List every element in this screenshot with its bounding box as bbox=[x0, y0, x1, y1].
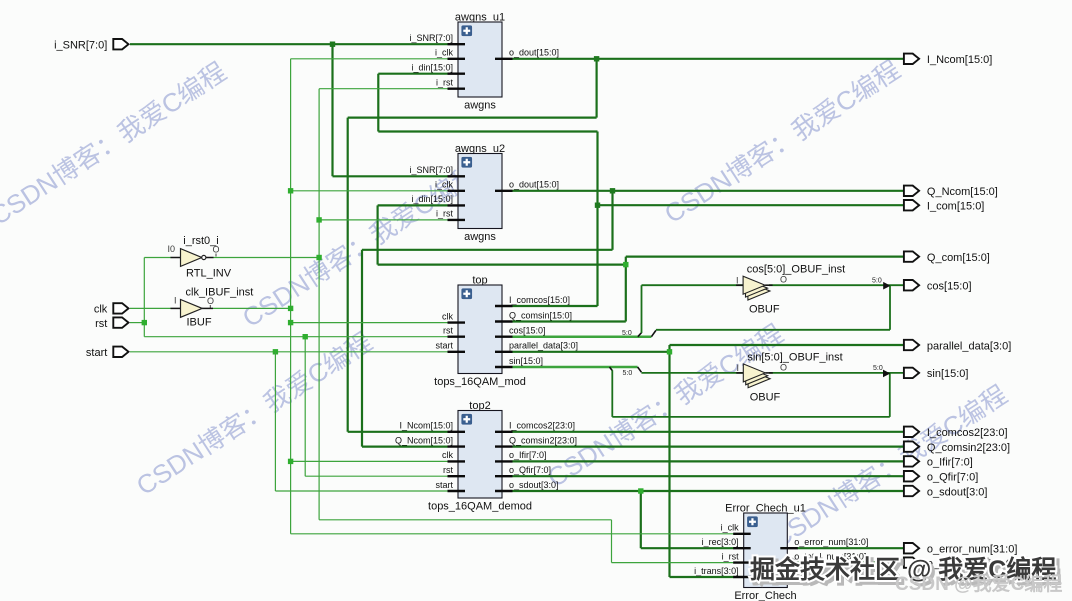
wire Q_comsin vertical bbox=[625, 257, 627, 322]
svg-text:OBUF: OBUF bbox=[750, 392, 781, 404]
svg-text:5:0: 5:0 bbox=[873, 365, 883, 372]
wire I_Ncom feedback left bbox=[348, 116, 597, 118]
svg-text:rst: rst bbox=[95, 318, 107, 330]
wire rst0 lower jog horizontal bbox=[319, 519, 611, 521]
inverter RTL_INV bbox=[168, 235, 232, 280]
port o_total_num[31:0] bbox=[904, 557, 1015, 570]
svg-text:i_rst: i_rst bbox=[436, 209, 454, 219]
wire I_Ncom branch down bbox=[595, 59, 597, 118]
wire i_trans into Error_Chech bbox=[670, 576, 734, 578]
wire i_rec into Error_Chech bbox=[641, 547, 734, 549]
svg-text:Q_com[15:0]: Q_com[15:0] bbox=[927, 252, 990, 264]
node Q_Ncom junction bbox=[610, 188, 615, 193]
svg-text:CSDN @我爱C编程: CSDN @我爱C编程 bbox=[895, 572, 1062, 595]
node I_com junction bbox=[595, 203, 600, 208]
svg-text:5:0: 5:0 bbox=[872, 277, 882, 284]
wire rst into top bbox=[144, 336, 447, 338]
ripper sin high bits tap bbox=[610, 367, 613, 371]
node clk top junction bbox=[288, 320, 293, 325]
node I_Ncom junction bbox=[594, 56, 599, 61]
wire i_clk into Error_Chech bbox=[291, 533, 734, 535]
wire Q_comsin2 to port bbox=[513, 446, 904, 448]
svg-text:IBUF: IBUF bbox=[187, 317, 212, 329]
port Q_com[15:0] bbox=[904, 251, 990, 264]
port i_SNR[7:0] bbox=[54, 39, 128, 52]
wire o_sdout branch down bbox=[640, 491, 642, 548]
wire Q_com to port bbox=[626, 256, 904, 258]
wire rst into top2 bbox=[305, 475, 447, 477]
svg-text:Q_Ncom[15:0]: Q_Ncom[15:0] bbox=[395, 435, 453, 445]
svg-text:O: O bbox=[213, 245, 220, 255]
svg-text:tops_16QAM_demod: tops_16QAM_demod bbox=[428, 501, 532, 513]
module awgns_u2 (awgns) bbox=[409, 143, 559, 243]
arrow cos merge bbox=[883, 282, 890, 290]
wire awgns_u2 i_din bbox=[378, 204, 448, 206]
svg-text:rst: rst bbox=[443, 326, 453, 336]
svg-text:start: start bbox=[435, 480, 453, 490]
svg-text:o_Qfir[7:0]: o_Qfir[7:0] bbox=[927, 472, 978, 484]
svg-text:o_dout[15:0]: o_dout[15:0] bbox=[509, 48, 559, 58]
svg-text:o_Ifir[7:0]: o_Ifir[7:0] bbox=[927, 457, 973, 469]
svg-text:parallel_data[3:0]: parallel_data[3:0] bbox=[927, 340, 1011, 352]
wire rst0 net vertical bbox=[318, 89, 320, 520]
svg-text:I_comcos2[23:0]: I_comcos2[23:0] bbox=[927, 427, 1008, 439]
wire clk into top2 bbox=[291, 460, 448, 462]
svg-text:cos[15:0]: cos[15:0] bbox=[509, 326, 546, 336]
svg-text:start: start bbox=[86, 347, 107, 359]
port Q_Ncom[15:0] bbox=[904, 186, 998, 199]
wire sin high bits horizontal bbox=[612, 416, 890, 418]
svg-text:o_error_num[31:0]: o_error_num[31:0] bbox=[794, 537, 868, 547]
wire Q_Ncom feedback left bbox=[362, 249, 613, 251]
svg-text:5:0: 5:0 bbox=[623, 370, 633, 377]
svg-text:cos[15:0]: cos[15:0] bbox=[927, 281, 972, 293]
wire start vertical bbox=[274, 352, 276, 491]
svg-text:I_Ncom[15:0]: I_Ncom[15:0] bbox=[927, 54, 992, 66]
ripper cos OBUF tap bbox=[638, 333, 642, 337]
node clk u2 junction bbox=[288, 188, 293, 193]
wire parallel_data to port bbox=[670, 344, 904, 346]
arrow sin merge bbox=[883, 370, 890, 378]
wire i_din u2 horizontal bbox=[378, 264, 626, 266]
wire awgns_u1 i_clk bbox=[291, 58, 448, 60]
wire i_rst into Error_Chech bbox=[612, 562, 734, 564]
wire o_total_num to port bbox=[797, 561, 904, 563]
wire awgns_u2 i_clk bbox=[291, 190, 448, 192]
svg-text:I: I bbox=[736, 276, 739, 286]
svg-text:Q_comsin[15:0]: Q_comsin[15:0] bbox=[509, 310, 572, 320]
svg-text:start: start bbox=[435, 341, 453, 351]
wire clk net vertical bbox=[290, 59, 292, 534]
port I_com[15:0] bbox=[904, 200, 984, 213]
port start bbox=[86, 347, 129, 360]
svg-text:sin[5:0]_OBUF_inst: sin[5:0]_OBUF_inst bbox=[747, 352, 842, 364]
wire Q_Ncom branch down bbox=[611, 191, 613, 250]
wire cos OBUF vertical bbox=[641, 285, 643, 333]
svg-text:clk_IBUF_inst: clk_IBUF_inst bbox=[186, 287, 254, 299]
svg-text:RTL_INV: RTL_INV bbox=[186, 268, 232, 280]
wire sin merge vertical bbox=[889, 373, 891, 417]
wire rst port to junction bbox=[130, 322, 144, 324]
wire rst0 lower jog vertical bbox=[611, 520, 613, 563]
wire I_Ncom from awgns_u1 o_dout to port bbox=[513, 58, 904, 60]
port o_Qfir[7:0] bbox=[904, 471, 978, 484]
svg-text:I: I bbox=[174, 296, 177, 306]
svg-text:Error_Chech: Error_Chech bbox=[734, 590, 796, 601]
svg-text:clk: clk bbox=[442, 450, 453, 460]
node Q net junction bbox=[623, 262, 628, 267]
wire i_din u2 vertical bbox=[377, 205, 379, 264]
svg-text:o_dout[15:0]: o_dout[15:0] bbox=[509, 180, 559, 190]
wire cos high bits horizontal bbox=[656, 329, 890, 331]
svg-text:i_clk: i_clk bbox=[435, 48, 454, 58]
wire awgns_u1 i_din bbox=[378, 73, 447, 75]
port parallel_data[3:0] bbox=[904, 340, 1011, 353]
module top2 (tops_16QAM_demod) bbox=[395, 400, 577, 513]
svg-text:Q_Ncom[15:0]: Q_Ncom[15:0] bbox=[927, 186, 998, 198]
buffer IBUF clk_IBUF_inst bbox=[171, 287, 254, 329]
svg-text:I_Ncom[15:0]: I_Ncom[15:0] bbox=[399, 421, 453, 431]
node rst branch junction bbox=[303, 334, 308, 339]
wire rst vertical bbox=[143, 258, 145, 337]
svg-text:i_SNR[7:0]: i_SNR[7:0] bbox=[409, 33, 453, 43]
node i_SNR junction bbox=[330, 42, 335, 47]
node o_sdout junction bbox=[638, 488, 643, 493]
svg-text:i_trans[3:0]: i_trans[3:0] bbox=[694, 566, 739, 576]
wire awgns_u1 i_rst bbox=[319, 88, 447, 90]
port Q_comsin2[23:0] bbox=[904, 441, 1010, 454]
node start junction bbox=[273, 349, 278, 354]
wire i_din u1 horizontal bbox=[378, 130, 597, 132]
wire clk into top bbox=[291, 322, 448, 324]
wire I_comcos2 to port bbox=[513, 431, 904, 433]
wire cos OBUF input bbox=[642, 284, 744, 286]
wire o_Qfir to port bbox=[513, 475, 904, 477]
wire clk port to IBUF bbox=[130, 307, 171, 309]
buffer sin OBUF inst bbox=[737, 352, 843, 374]
svg-text:i_rec[3:0]: i_rec[3:0] bbox=[702, 537, 739, 547]
svg-text:I0: I0 bbox=[168, 244, 176, 254]
svg-text:i_din[15:0]: i_din[15:0] bbox=[411, 194, 453, 204]
svg-text:O: O bbox=[780, 363, 787, 373]
port I_comcos2[23:0] bbox=[904, 427, 1008, 440]
svg-text:rst: rst bbox=[443, 465, 453, 475]
svg-text:awgns: awgns bbox=[464, 231, 496, 243]
svg-text:tops_16QAM_mod: tops_16QAM_mod bbox=[434, 376, 526, 388]
svg-text:i_SNR[7:0]: i_SNR[7:0] bbox=[54, 40, 107, 52]
svg-text:I_comcos2[23:0]: I_comcos2[23:0] bbox=[509, 421, 575, 431]
wire IBUF output bbox=[213, 307, 291, 309]
buffer OBUF cos bbox=[736, 276, 773, 300]
svg-text:I: I bbox=[737, 363, 740, 373]
port rst bbox=[95, 317, 128, 330]
svg-text:i_clk: i_clk bbox=[721, 523, 740, 533]
svg-text:awgns: awgns bbox=[464, 100, 496, 112]
module awgns_u1 (awgns) bbox=[409, 12, 559, 112]
node clk IBUF junction bbox=[288, 306, 293, 311]
node rst0 inv junction bbox=[316, 255, 321, 260]
svg-text:o_error_num[31:0]: o_error_num[31:0] bbox=[927, 544, 1018, 556]
svg-text:o_sdout[3:0]: o_sdout[3:0] bbox=[927, 486, 988, 498]
wire sin bus from top bbox=[513, 366, 638, 369]
wire I_comcos vertical bbox=[596, 132, 598, 307]
ripper sin OBUF tap bbox=[638, 367, 642, 372]
wire sin OBUF input bbox=[641, 372, 743, 374]
wire parallel_data vertical bbox=[668, 345, 670, 577]
svg-text:o_Ifir[7:0]: o_Ifir[7:0] bbox=[509, 450, 547, 460]
svg-text:i_SNR[7:0]: i_SNR[7:0] bbox=[409, 165, 453, 175]
wire i_SNR into awgns_u2 bbox=[333, 175, 448, 177]
port sin[15:0] bbox=[904, 368, 969, 381]
wire Q_Ncom into top2 bbox=[362, 446, 448, 448]
node clk top2 junction bbox=[288, 459, 293, 464]
wire Q_Ncom from awgns_u2 o_dout to port bbox=[513, 190, 904, 192]
svg-text:sin[15:0]: sin[15:0] bbox=[927, 368, 969, 380]
svg-text:o_sdout[3:0]: o_sdout[3:0] bbox=[509, 480, 559, 490]
node rst junction bbox=[142, 320, 147, 325]
svg-text:cos[5:0]_OBUF_inst: cos[5:0]_OBUF_inst bbox=[747, 264, 845, 276]
wire cos OBUF output to port bbox=[769, 284, 904, 286]
svg-text:i_din[15:0]: i_din[15:0] bbox=[411, 63, 453, 73]
svg-text:i_rst: i_rst bbox=[722, 551, 740, 561]
wire sin OBUF output to port bbox=[769, 372, 904, 374]
wire i_SNR branch down to awgns_u2 bbox=[331, 44, 333, 176]
svg-text:I_com[15:0]: I_com[15:0] bbox=[927, 201, 984, 213]
svg-text:O: O bbox=[780, 275, 787, 285]
wire I_Ncom into top2 bbox=[348, 431, 448, 433]
wire parallel_data stub from top bbox=[513, 351, 670, 353]
wire o_Ifir to port bbox=[513, 460, 904, 462]
wire Q_comsin stub from top bbox=[513, 320, 626, 322]
svg-text:I_comcos[15:0]: I_comcos[15:0] bbox=[509, 295, 570, 305]
svg-text:OBUF: OBUF bbox=[749, 304, 780, 316]
port clk bbox=[94, 303, 129, 316]
svg-text:Q_comsin2[23:0]: Q_comsin2[23:0] bbox=[927, 442, 1010, 454]
wire I_comcos stub from top bbox=[513, 305, 598, 307]
wire awgns_u2 i_rst bbox=[319, 219, 447, 221]
wire RTL_INV output bbox=[213, 257, 319, 259]
buffer cos OBUF inst bbox=[736, 264, 845, 286]
wire i_din u1 vertical bbox=[377, 74, 379, 132]
svg-text:i_clk: i_clk bbox=[435, 180, 454, 190]
wire cos bus from top bbox=[513, 335, 652, 338]
wire sin high bits vertical bbox=[611, 370, 613, 417]
wire Q_Ncom feedback down to top2 bbox=[361, 250, 363, 447]
svg-text:o_Qfir[7:0]: o_Qfir[7:0] bbox=[509, 465, 551, 475]
wire cos high bits vertical bbox=[889, 285, 891, 330]
port cos[15:0] bbox=[904, 280, 972, 293]
svg-text:parallel_data[3:0]: parallel_data[3:0] bbox=[509, 341, 578, 351]
wire o_sdout to port bbox=[513, 490, 904, 492]
module Error_Chech_u1 (Error_Chech) bbox=[694, 503, 868, 601]
wire I_com to port bbox=[598, 204, 904, 206]
svg-text:Q_comsin2[23:0]: Q_comsin2[23:0] bbox=[509, 435, 577, 445]
node rst0 u2 junction bbox=[316, 217, 321, 222]
port I_Ncom[15:0] bbox=[904, 54, 992, 67]
module top (tops_16QAM_mod) bbox=[434, 275, 578, 389]
wire o_error_num to port bbox=[797, 547, 904, 549]
svg-text:i_rst: i_rst bbox=[436, 78, 454, 88]
port o_sdout[3:0] bbox=[904, 486, 988, 499]
wire I_Ncom feedback down to top2 bbox=[347, 118, 349, 432]
wire i_SNR bus from port to awgns_u1 bbox=[130, 43, 448, 45]
svg-text:5:0: 5:0 bbox=[622, 330, 632, 337]
wire RTL_INV input bbox=[144, 257, 171, 259]
svg-text:sin[15:0]: sin[15:0] bbox=[509, 356, 543, 366]
wire start into top2 bbox=[275, 490, 447, 492]
svg-text:clk: clk bbox=[442, 311, 453, 321]
svg-text:clk: clk bbox=[94, 304, 108, 316]
port o_error_num[31:0] bbox=[904, 543, 1018, 556]
buffer OBUF sin bbox=[736, 364, 773, 388]
port o_Ifir[7:0] bbox=[904, 456, 973, 469]
node parallel_data junction bbox=[667, 349, 672, 354]
ripper cos high bits tap bbox=[651, 330, 656, 336]
wire start from port bbox=[130, 351, 448, 353]
svg-text:O: O bbox=[207, 296, 214, 306]
wire rst branch down bbox=[304, 337, 306, 477]
